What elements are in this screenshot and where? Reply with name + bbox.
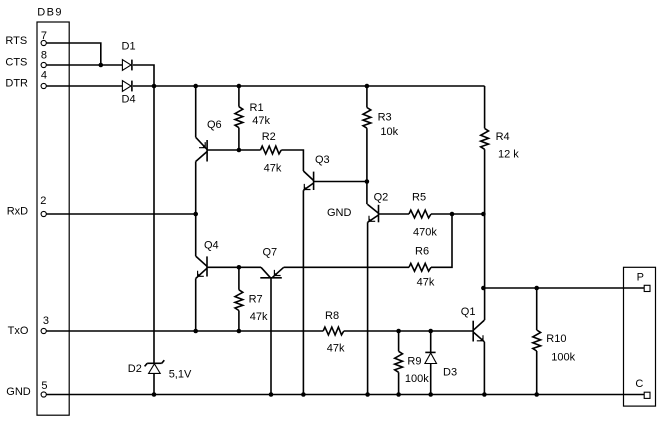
svg-text:R10: R10 <box>546 333 566 345</box>
svg-text:47k: 47k <box>250 311 268 323</box>
svg-text:5: 5 <box>41 380 47 392</box>
svg-text:47k: 47k <box>264 162 282 174</box>
svg-text:DTR: DTR <box>5 77 28 89</box>
svg-text:RTS: RTS <box>5 35 27 47</box>
svg-text:Q4: Q4 <box>204 240 219 252</box>
svg-text:100k: 100k <box>551 352 575 364</box>
svg-text:D4: D4 <box>122 94 136 106</box>
svg-text:Q3: Q3 <box>315 154 330 166</box>
svg-text:47k: 47k <box>252 115 270 127</box>
svg-text:DB9: DB9 <box>37 7 63 19</box>
svg-text:8: 8 <box>41 50 47 62</box>
svg-text:R4: R4 <box>496 131 510 143</box>
svg-text:R7: R7 <box>249 293 263 305</box>
svg-text:D2: D2 <box>128 363 142 375</box>
svg-text:5,1V: 5,1V <box>169 369 192 381</box>
svg-text:4: 4 <box>41 69 47 81</box>
svg-text:R1: R1 <box>250 102 264 114</box>
svg-text:R2: R2 <box>262 131 276 143</box>
svg-text:100k: 100k <box>405 373 429 385</box>
svg-text:12 k: 12 k <box>498 149 519 161</box>
svg-text:TxO: TxO <box>8 325 29 337</box>
svg-text:2: 2 <box>40 195 46 207</box>
svg-text:47k: 47k <box>417 277 435 289</box>
svg-text:R3: R3 <box>378 112 392 124</box>
svg-text:C: C <box>635 378 643 390</box>
svg-text:7: 7 <box>41 30 47 42</box>
svg-text:Q7: Q7 <box>263 247 278 259</box>
svg-text:RxD: RxD <box>7 205 28 217</box>
svg-text:R8: R8 <box>325 310 339 322</box>
svg-text:Q1: Q1 <box>461 306 476 318</box>
svg-text:D3: D3 <box>443 367 457 379</box>
svg-text:R9: R9 <box>407 356 421 368</box>
svg-text:CTS: CTS <box>5 56 27 68</box>
svg-text:R5: R5 <box>412 192 426 204</box>
svg-text:Q2: Q2 <box>374 191 389 203</box>
svg-text:47k: 47k <box>327 343 345 355</box>
svg-text:P: P <box>637 272 644 284</box>
svg-text:10k: 10k <box>380 126 398 138</box>
svg-text:GND: GND <box>327 207 352 219</box>
svg-text:Q6: Q6 <box>207 119 222 131</box>
svg-text:GND: GND <box>6 386 31 398</box>
svg-text:470k: 470k <box>413 227 437 239</box>
svg-text:3: 3 <box>43 315 49 327</box>
svg-text:R6: R6 <box>415 245 429 257</box>
svg-text:D1: D1 <box>122 41 136 53</box>
